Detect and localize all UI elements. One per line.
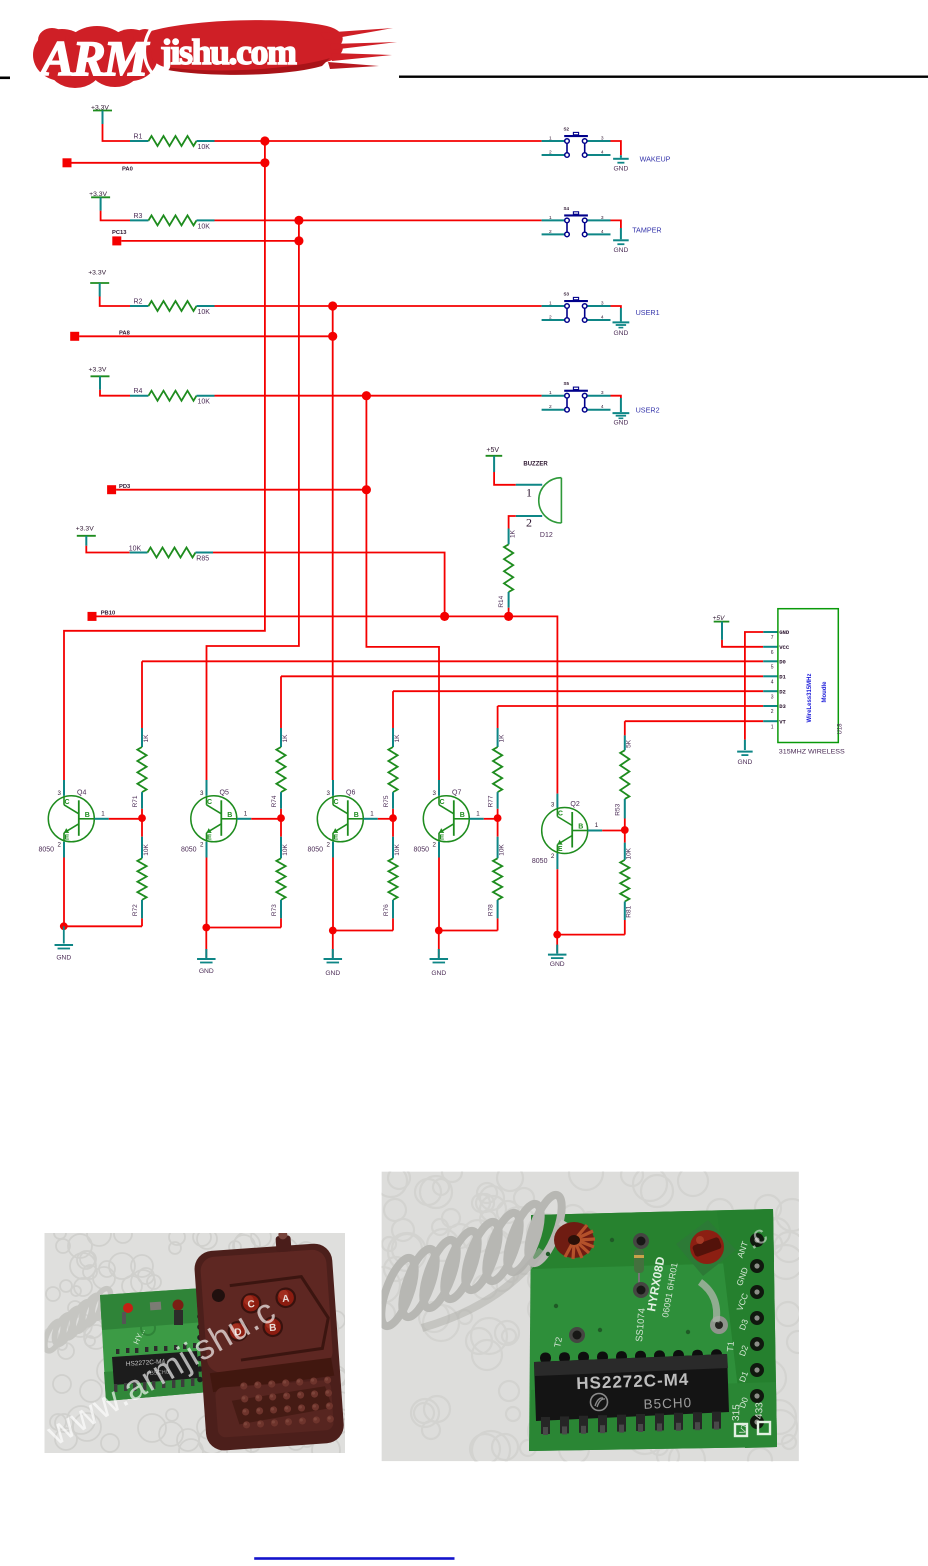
- ARMjishu.com logo: [33, 20, 397, 88]
- svg-text:S3: S3: [564, 292, 570, 297]
- svg-text:GND: GND: [56, 955, 71, 962]
- resistor R75 1K: [383, 691, 401, 818]
- svg-text:1: 1: [549, 136, 552, 142]
- svg-text:4: 4: [601, 150, 604, 156]
- wire R85 to PB10 net: [213, 553, 445, 617]
- svg-text:10K: 10K: [198, 309, 211, 316]
- svg-text:R1: R1: [134, 134, 143, 141]
- svg-text:2: 2: [549, 315, 552, 321]
- wire button to GND: [611, 396, 621, 398]
- power +3.3V: [89, 367, 110, 377]
- wire VT net: [625, 720, 763, 722]
- svg-text:1K: 1K: [510, 529, 517, 538]
- wire PB10 net to Q2 collector: [97, 616, 558, 793]
- ground (Q7 emitter): [430, 959, 449, 977]
- push button S5 (USER2): [542, 381, 611, 412]
- wire PA8 net: [79, 335, 333, 337]
- svg-text:S2: S2: [564, 127, 570, 132]
- svg-text:10K: 10K: [129, 546, 142, 553]
- svg-text:1: 1: [370, 810, 374, 817]
- svg-text:1: 1: [549, 215, 552, 221]
- wire +3.3V to R4: [99, 376, 101, 390]
- svg-text:GND: GND: [431, 970, 446, 977]
- port PD3: [107, 485, 116, 494]
- transistor Q7 8050: [414, 780, 484, 853]
- svg-text:BUZZER: BUZZER: [523, 461, 548, 467]
- svg-text:D12: D12: [540, 532, 553, 539]
- resistor R3 10K: [130, 213, 215, 231]
- svg-text:2: 2: [526, 516, 532, 530]
- svg-text:1K: 1K: [143, 734, 150, 743]
- resistor R53 5K: [615, 721, 633, 830]
- svg-text:ARM: ARM: [38, 30, 150, 86]
- svg-text:2: 2: [771, 709, 774, 715]
- svg-text:2: 2: [58, 841, 62, 848]
- svg-text:R75: R75: [383, 795, 390, 807]
- wire +3.3V to R1: [102, 111, 104, 125]
- junction: [389, 814, 397, 822]
- junction: [328, 301, 337, 310]
- svg-text:+3.3V: +3.3V: [76, 526, 94, 533]
- resistor R74 1K: [271, 676, 289, 818]
- resistor R2 10K: [130, 299, 215, 317]
- port PA8: [70, 332, 79, 341]
- svg-text:C: C: [440, 799, 445, 806]
- wire Q6 emitter to ground: [332, 842, 334, 858]
- svg-text:E: E: [334, 834, 339, 841]
- svg-text:VCC: VCC: [779, 644, 790, 651]
- power +3.3V: [76, 526, 96, 536]
- svg-text:R74: R74: [271, 795, 278, 807]
- svg-text:PC13: PC13: [112, 230, 127, 236]
- svg-text:R71: R71: [132, 795, 139, 807]
- svg-text:R3: R3: [134, 213, 143, 220]
- svg-text:Q2: Q2: [570, 801, 579, 808]
- wire +3.3V to R3: [100, 197, 102, 211]
- svg-text:10K: 10K: [394, 844, 401, 856]
- header rule right segment: [399, 76, 928, 78]
- wire D2 net: [393, 690, 763, 692]
- svg-text:S5: S5: [564, 381, 570, 386]
- resistor R76 10K: [383, 818, 401, 930]
- svg-text:1: 1: [101, 810, 105, 817]
- wire Q4 base: [109, 818, 142, 820]
- svg-text:D1: D1: [779, 674, 786, 681]
- wire Q5 emitter to ground: [206, 842, 208, 858]
- power +3.3V: [91, 105, 112, 112]
- junction: [621, 826, 629, 834]
- transistor Q5 8050: [181, 780, 251, 853]
- svg-text:5: 5: [771, 665, 774, 671]
- svg-text:4: 4: [601, 315, 604, 321]
- svg-text:+5V: +5V: [486, 447, 499, 454]
- svg-text:R72: R72: [132, 904, 139, 916]
- svg-text:R14: R14: [498, 595, 505, 607]
- junction: [553, 931, 561, 939]
- svg-text:R4: R4: [134, 388, 143, 395]
- svg-text:1: 1: [476, 810, 480, 817]
- junction: [294, 236, 303, 245]
- resistor R78 10K: [487, 818, 505, 930]
- wire Q7 emitter to ground: [438, 842, 440, 858]
- svg-text:GND: GND: [737, 759, 752, 766]
- junction: [260, 136, 269, 145]
- svg-text:+3.3V: +3.3V: [89, 367, 107, 374]
- svg-text:Q6: Q6: [346, 789, 355, 796]
- svg-text:1: 1: [549, 301, 552, 307]
- svg-text:D2: D2: [779, 688, 786, 695]
- junction: [294, 216, 303, 225]
- resistor R73 10K: [271, 818, 289, 927]
- svg-text:R78: R78: [487, 904, 494, 916]
- svg-text:S4: S4: [564, 206, 570, 211]
- ground (Q4 emitter): [55, 945, 74, 962]
- svg-text:B: B: [578, 824, 583, 831]
- svg-text:315: 315: [731, 1404, 743, 1421]
- svg-text:GND: GND: [325, 970, 340, 977]
- svg-text:C: C: [207, 799, 212, 806]
- resistor R72 10K: [132, 818, 150, 926]
- wire Q6 base: [378, 818, 393, 820]
- svg-text:2: 2: [549, 150, 552, 156]
- svg-text:WAKEUP: WAKEUP: [640, 155, 671, 164]
- wire button to GND: [611, 141, 621, 155]
- svg-text:R53: R53: [615, 803, 622, 815]
- power +3.3V: [89, 191, 110, 198]
- wire PA0 net: [72, 162, 265, 164]
- svg-text:C: C: [334, 799, 339, 806]
- svg-text:3: 3: [601, 136, 604, 142]
- wire +5V to VCC pin: [721, 622, 723, 640]
- transistor Q6 8050: [308, 780, 378, 853]
- wire Q5 base: [251, 818, 281, 820]
- svg-text:1: 1: [549, 390, 552, 396]
- ground (button TAMPER): [613, 240, 629, 254]
- svg-text:1K: 1K: [282, 734, 289, 743]
- port PC13: [112, 236, 121, 245]
- svg-text:R2: R2: [134, 299, 143, 306]
- port PB10: [88, 612, 97, 621]
- wire GND pin to ground: [763, 631, 778, 633]
- svg-text:4: 4: [771, 680, 774, 686]
- wire PC13 net: [121, 240, 299, 242]
- svg-text:1: 1: [771, 724, 774, 730]
- svg-text:USER2: USER2: [636, 405, 660, 414]
- svg-text:3: 3: [433, 790, 437, 797]
- svg-text:C: C: [65, 799, 70, 806]
- svg-text:USER1: USER1: [636, 308, 660, 317]
- power +3.3V: [88, 270, 109, 283]
- resistor R4 10K: [130, 388, 215, 406]
- junction: [362, 485, 371, 494]
- resistor R1 10K: [130, 134, 215, 152]
- photo: 315MHz receiver module close-up: [364, 1156, 809, 1478]
- svg-text:TAMPER: TAMPER: [632, 226, 661, 235]
- svg-text:R85: R85: [196, 555, 209, 562]
- svg-text:PA0: PA0: [122, 166, 133, 172]
- power +5V (module): [713, 615, 730, 622]
- svg-text:2: 2: [549, 229, 552, 235]
- svg-text:3: 3: [601, 215, 604, 221]
- svg-text:8050: 8050: [39, 846, 55, 853]
- resistor R71 1K: [132, 661, 150, 818]
- svg-text:8050: 8050: [532, 858, 548, 865]
- junction: [504, 612, 513, 621]
- svg-text:2: 2: [200, 841, 204, 848]
- svg-text:3: 3: [601, 390, 604, 396]
- svg-text:GND: GND: [613, 330, 628, 337]
- svg-text:Q7: Q7: [452, 789, 461, 796]
- wire +3.3V to R2: [99, 283, 101, 297]
- svg-text:10K: 10K: [198, 399, 211, 406]
- svg-text:E: E: [558, 846, 563, 853]
- ground (button WAKEUP): [613, 159, 629, 173]
- junction: [435, 927, 443, 935]
- junction: [277, 814, 285, 822]
- svg-text:1: 1: [595, 822, 599, 829]
- svg-text:R77: R77: [487, 795, 494, 807]
- ground (Q2 emitter): [548, 955, 567, 968]
- ground (button USER2): [613, 413, 630, 427]
- ground (button USER1): [613, 322, 630, 337]
- svg-text:R76: R76: [383, 904, 390, 916]
- wire bus PC13 to Q5 collector: [207, 220, 299, 780]
- ground (Q5 emitter): [197, 959, 216, 975]
- svg-text:jishu.com: jishu.com: [159, 32, 297, 72]
- svg-text:D0: D0: [779, 659, 786, 666]
- wire to button: [215, 305, 542, 307]
- svg-text:Q4: Q4: [77, 789, 86, 796]
- svg-text:E: E: [207, 834, 212, 841]
- svg-text:Moudle: Moudle: [822, 681, 828, 703]
- svg-text:E: E: [65, 834, 70, 841]
- svg-text:2: 2: [551, 853, 555, 860]
- svg-text:E: E: [440, 834, 445, 841]
- svg-text:WireLess315MHz: WireLess315MHz: [807, 674, 813, 723]
- resistor R85 10K: [129, 546, 213, 563]
- svg-text:R73: R73: [271, 904, 278, 916]
- transistor Q2 8050: [532, 794, 602, 865]
- header rule left segment: [0, 77, 10, 80]
- wire PD3 net: [116, 489, 366, 491]
- junction: [260, 158, 269, 167]
- svg-text:GND: GND: [779, 629, 790, 636]
- svg-text:GND: GND: [613, 420, 628, 427]
- svg-text:315MHZ WIRELESS: 315MHZ WIRELESS: [779, 749, 845, 756]
- wire D3 net: [498, 705, 764, 707]
- svg-text:B: B: [460, 812, 465, 819]
- transistor Q4 8050: [39, 780, 109, 853]
- wire to button: [215, 140, 542, 142]
- junction: [60, 922, 68, 930]
- svg-text:B5CH0: B5CH0: [643, 1395, 692, 1412]
- svg-text:2: 2: [327, 841, 331, 848]
- svg-text:VT: VT: [779, 718, 786, 725]
- svg-text:B: B: [227, 812, 232, 819]
- svg-text:GND: GND: [613, 247, 628, 254]
- junction: [202, 924, 210, 932]
- push button S3 (USER1): [542, 292, 611, 323]
- push button S2 (WAKEUP): [542, 127, 611, 158]
- svg-text:3: 3: [601, 301, 604, 307]
- wire Q2 emitter to ground: [556, 854, 558, 870]
- wire buzzer pin2 to R14: [516, 515, 542, 517]
- svg-text:T2: T2: [552, 1336, 564, 1348]
- wire to button: [215, 395, 542, 397]
- svg-text:8050: 8050: [414, 846, 430, 853]
- junction: [329, 927, 337, 935]
- svg-text:2: 2: [433, 841, 437, 848]
- svg-text:3: 3: [327, 790, 331, 797]
- wire Q4 emitter to ground: [63, 842, 65, 858]
- junction: [440, 612, 449, 621]
- svg-text:U18: U18: [838, 723, 844, 735]
- svg-text:4: 4: [601, 404, 604, 410]
- svg-text:4: 4: [601, 229, 604, 235]
- wire bus PA0 to Q4 collector: [64, 141, 265, 780]
- svg-text:+3.3V: +3.3V: [88, 270, 106, 277]
- wire bus PA8 to Q6 collector: [332, 306, 334, 780]
- wire bus PD3/USER2 to Q7 collector: [366, 396, 439, 780]
- svg-text:B: B: [85, 812, 90, 819]
- module U18 315MHZ WIRELESS: [771, 609, 846, 756]
- wire to button: [215, 219, 542, 221]
- wire +5V to buzzer pin1: [493, 456, 495, 472]
- ground (module): [737, 752, 753, 766]
- wire button to GND: [611, 220, 621, 228]
- svg-text:10K: 10K: [626, 847, 633, 859]
- wire Q2 base: [602, 830, 625, 832]
- svg-text:2: 2: [549, 404, 552, 410]
- power +5V (buzzer): [486, 447, 503, 456]
- svg-text:B: B: [354, 812, 359, 819]
- svg-text:GND: GND: [613, 166, 628, 173]
- svg-text:8050: 8050: [308, 846, 324, 853]
- svg-text:8050: 8050: [181, 846, 197, 853]
- svg-text:GND: GND: [199, 968, 214, 975]
- wire R14 to PB10 net: [508, 608, 510, 617]
- svg-text:3: 3: [771, 694, 774, 700]
- svg-text:1: 1: [526, 486, 532, 500]
- footer link underline: [254, 1557, 454, 1560]
- svg-text:Q5: Q5: [220, 789, 229, 796]
- svg-text:7: 7: [771, 635, 774, 641]
- wire D0 net: [142, 660, 763, 662]
- svg-text:5K: 5K: [626, 739, 633, 748]
- port PA0: [63, 158, 72, 167]
- svg-text:T1: T1: [725, 1341, 736, 1352]
- buzzer D12: [523, 461, 561, 539]
- svg-text:10K: 10K: [499, 844, 506, 856]
- svg-text:GND: GND: [550, 961, 565, 968]
- svg-text:1K: 1K: [394, 734, 401, 743]
- wire button to GND: [611, 306, 621, 308]
- junction: [328, 332, 337, 341]
- svg-text:1K: 1K: [499, 734, 506, 743]
- push button S4 (TAMPER): [542, 206, 611, 237]
- svg-text:3: 3: [200, 790, 204, 797]
- wire D1 net: [281, 675, 763, 677]
- svg-text:3: 3: [58, 790, 62, 797]
- svg-text:10K: 10K: [198, 144, 211, 151]
- ground (Q6 emitter): [324, 959, 343, 977]
- svg-text:6: 6: [771, 650, 774, 656]
- resistor R77 1K: [487, 706, 505, 818]
- junction: [494, 814, 502, 822]
- svg-text:10K: 10K: [198, 223, 211, 230]
- svg-text:3: 3: [551, 802, 555, 809]
- svg-text:433: 433: [754, 1402, 766, 1419]
- svg-text:10K: 10K: [143, 844, 150, 856]
- svg-text:A: A: [282, 1294, 290, 1305]
- resistor R14 1K: [498, 529, 517, 608]
- svg-text:1: 1: [244, 810, 248, 817]
- svg-text:D3: D3: [779, 703, 786, 710]
- resistor R81 10K: [620, 830, 633, 935]
- wire +3.3V to R85: [85, 536, 87, 546]
- svg-text:R81: R81: [626, 905, 633, 917]
- photo: remote control with receiver board: [40, 1222, 354, 1464]
- junction: [138, 814, 146, 822]
- svg-text:10K: 10K: [282, 844, 289, 856]
- wire Q7 base: [484, 818, 498, 820]
- svg-text:C: C: [558, 811, 563, 818]
- junction: [362, 391, 371, 400]
